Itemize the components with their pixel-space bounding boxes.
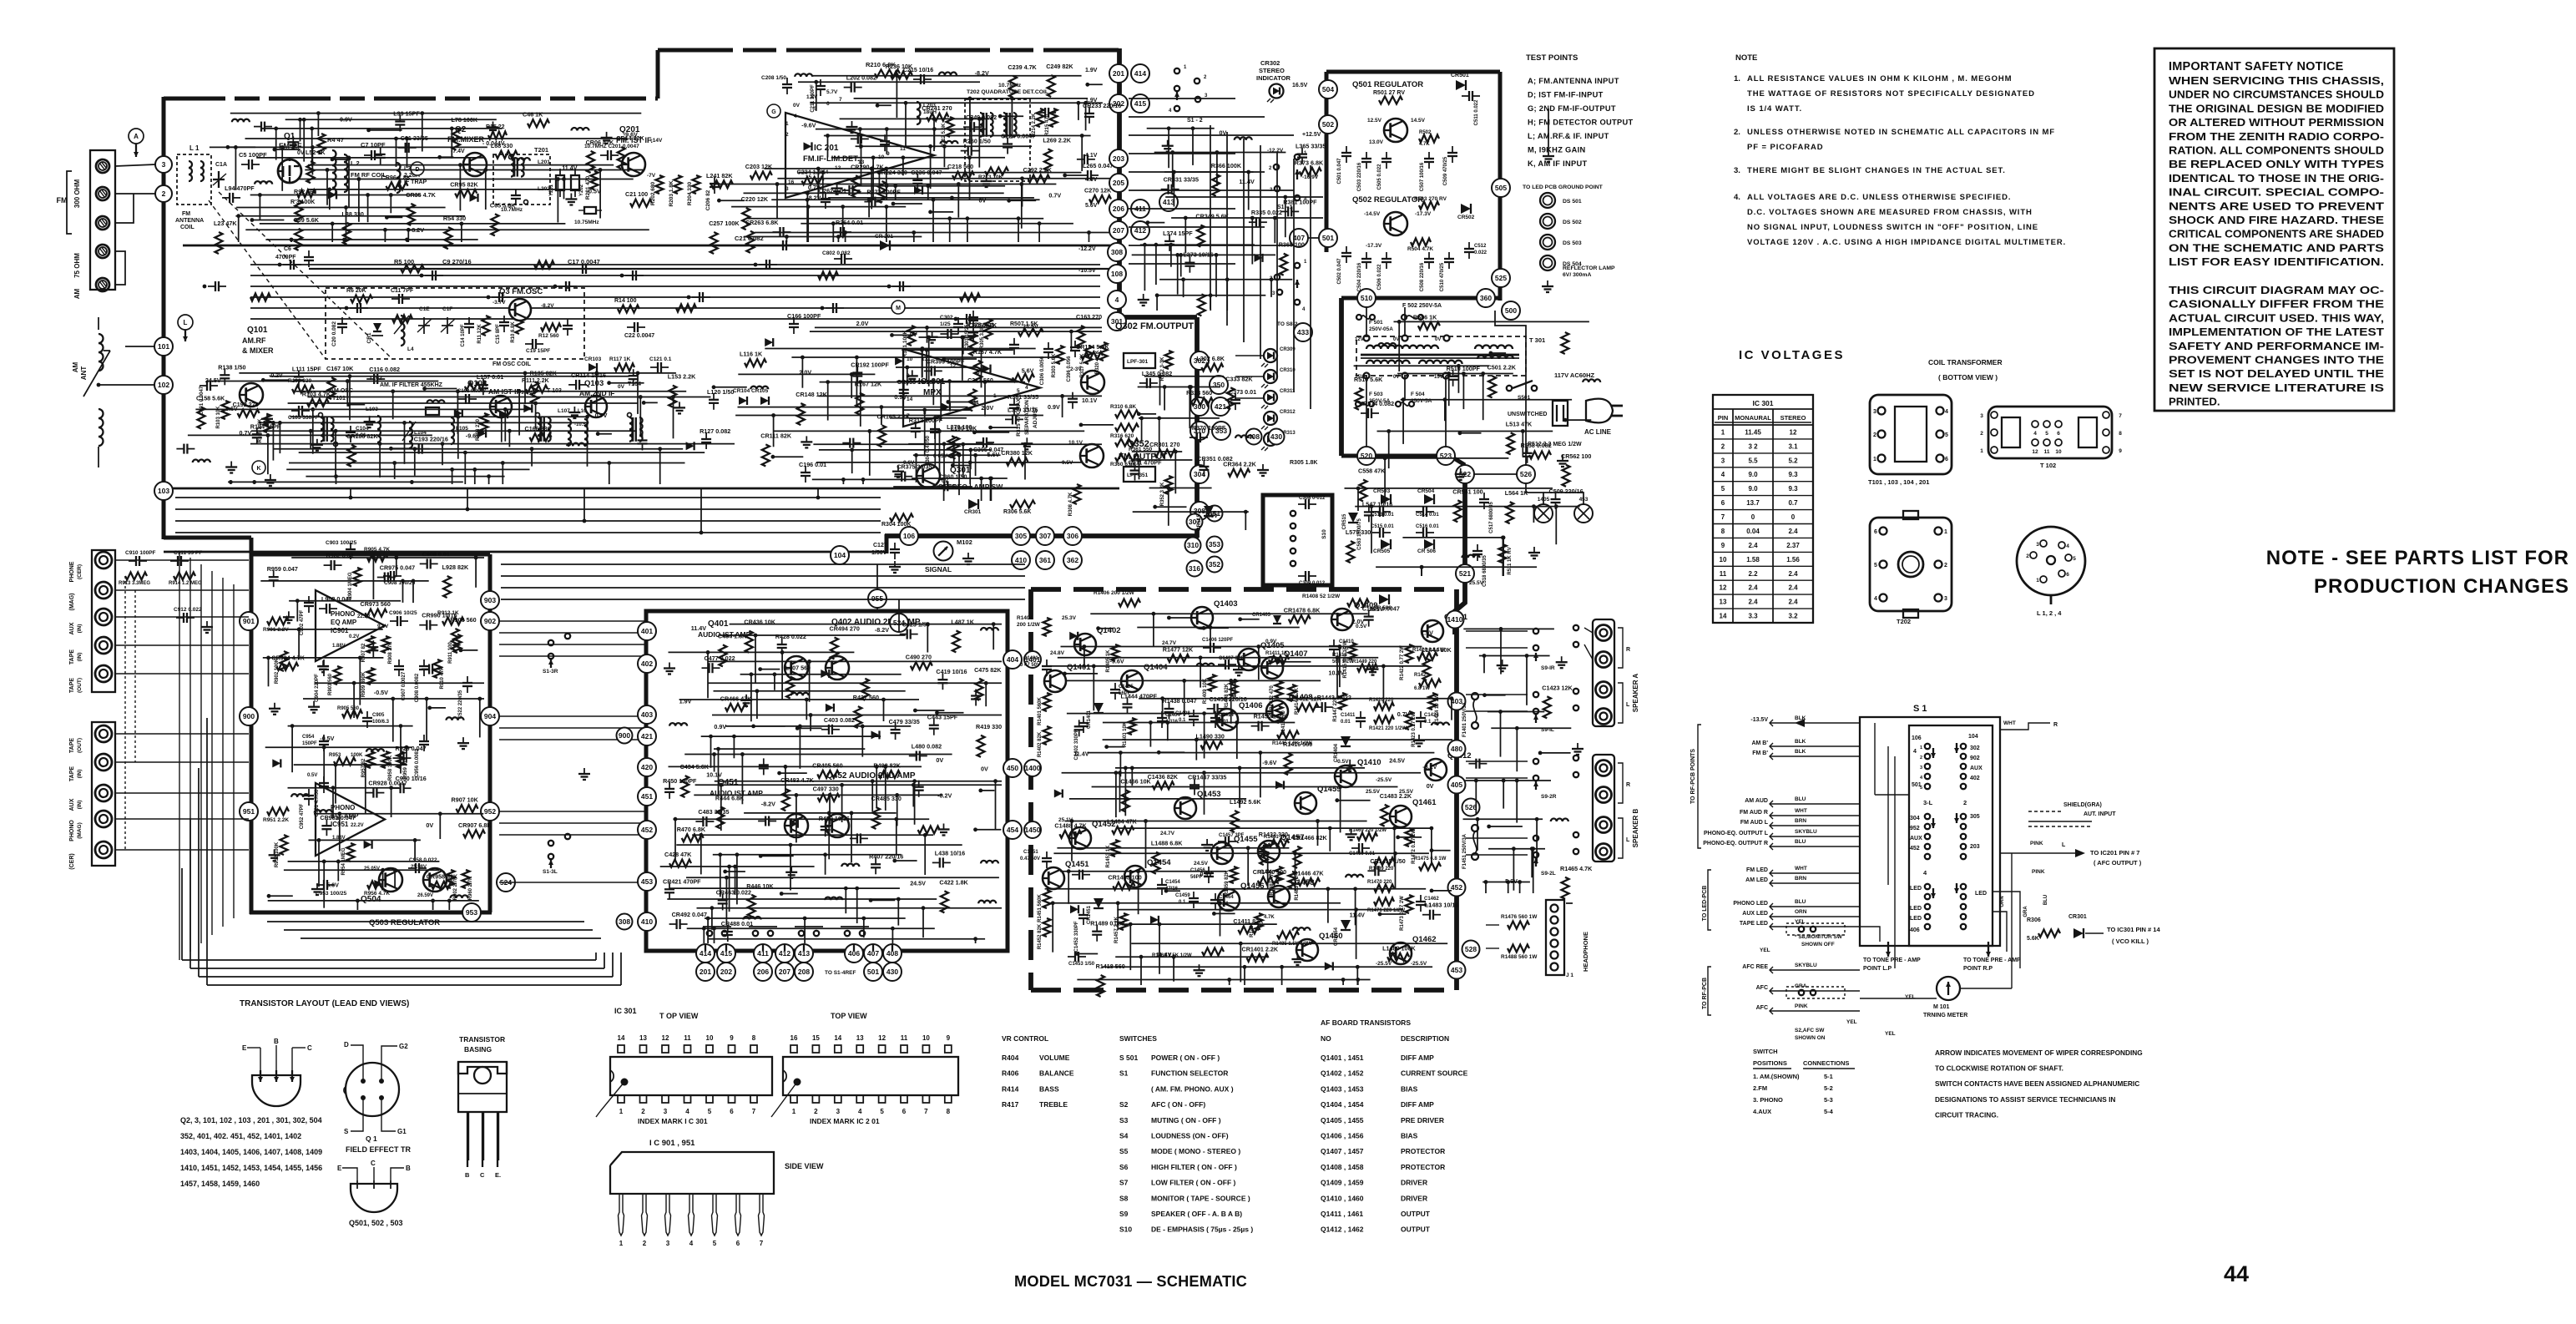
svg-text:L374 15PF: L374 15PF	[1163, 230, 1193, 237]
transistor Q1401	[1044, 670, 1066, 692]
svg-text:2.4: 2.4	[1748, 542, 1758, 549]
wire	[962, 444, 964, 478]
junction	[989, 477, 993, 481]
svg-text:C15 8PF: C15 8PF	[496, 324, 501, 344]
junction	[894, 817, 898, 821]
svg-text:0.9V: 0.9V	[1048, 403, 1060, 411]
ground	[274, 849, 275, 855]
capacitor C19 15PF	[525, 343, 533, 345]
wire	[817, 169, 819, 199]
wire MPX right bus	[1195, 317, 1200, 538]
wire	[933, 129, 935, 149]
wire	[359, 658, 361, 705]
svg-text:9: 9	[1721, 542, 1725, 549]
diode CR1 varactor	[373, 323, 381, 331]
junction	[716, 747, 720, 751]
svg-text:5: 5	[713, 1240, 717, 1247]
wire	[275, 149, 301, 150]
capacitor C512 0.022	[1468, 242, 1470, 249]
junction	[840, 783, 844, 787]
svg-text:C1408: C1408	[1175, 711, 1190, 716]
resistor R117 1K	[614, 364, 634, 371]
wire	[856, 888, 858, 923]
svg-text:AUX: AUX	[1910, 836, 1922, 841]
wire	[952, 465, 970, 467]
capacitor C208 1/50	[786, 78, 788, 84]
svg-text:SHOWN OFF: SHOWN OFF	[1801, 942, 1835, 948]
svg-text:208: 208	[798, 968, 810, 976]
wire	[644, 402, 658, 403]
svg-text:CURRENT SOURCE: CURRENT SOURCE	[1401, 1069, 1468, 1078]
junction	[858, 380, 862, 384]
svg-text:THE ORIGINAL DESIGN BE MODIFIE: THE ORIGINAL DESIGN BE MODIFIED	[2169, 102, 2384, 114]
svg-text:0V: 0V	[1393, 375, 1399, 380]
wire gang dashed 2	[219, 192, 392, 359]
svg-text:S2: S2	[1119, 1100, 1129, 1109]
junction	[422, 387, 427, 391]
wire	[557, 179, 558, 223]
svg-text:6: 6	[2057, 431, 2060, 437]
svg-text:G: G	[771, 109, 776, 115]
wire audio board box	[646, 611, 1008, 951]
svg-text:SPEAKER A: SPEAKER A	[1632, 674, 1639, 713]
resistor R914 1.2 MEG	[174, 573, 195, 580]
wire	[720, 855, 721, 897]
svg-text:DESIGNATIONS TO ASSIST SERV: DESIGNATIONS TO ASSIST SERVICE TECHNICIA…	[1935, 1095, 2115, 1104]
svg-text:0V: 0V	[910, 331, 917, 338]
resistor R901 2.2K	[267, 618, 289, 625]
junction	[983, 380, 987, 384]
svg-text:2: 2	[785, 132, 789, 138]
svg-text:NOTE: NOTE	[1735, 53, 1757, 63]
svg-text:11.4V: 11.4V	[562, 164, 578, 171]
junction	[425, 697, 429, 701]
svg-text:Q1404: Q1404	[1144, 663, 1168, 672]
resistor R446	[748, 895, 755, 917]
diode CR503	[1381, 494, 1391, 504]
junction	[391, 697, 395, 701]
wire	[1000, 115, 1023, 117]
svg-text:R381 100PF: R381 100PF	[1283, 198, 1317, 205]
resistor R910 47K	[434, 659, 442, 678]
svg-text:-8.2V: -8.2V	[761, 801, 775, 808]
junction	[712, 385, 716, 389]
wire	[695, 784, 1002, 786]
op-amp IC951 phono EQ	[316, 783, 385, 856]
switch S10 contact 2	[1291, 523, 1296, 528]
svg-text:C1458 220/16: C1458 220/16	[1210, 695, 1247, 703]
svg-text:1: 1	[2036, 578, 2039, 584]
resistor R903 560	[334, 666, 341, 685]
svg-text:CR436 10K: CR436 10K	[744, 619, 775, 626]
svg-text:H; FM DETECTOR OUTPUT: H; FM DETECTOR OUTPUT	[1528, 119, 1633, 127]
svg-text:Q502 REGULATOR: Q502 REGULATOR	[1352, 195, 1423, 205]
wire	[773, 416, 775, 447]
wire IF top bus	[658, 48, 1119, 53]
svg-text:DESCRIPTION: DESCRIPTION	[1401, 1034, 1449, 1043]
svg-text:R907 10K: R907 10K	[452, 796, 479, 804]
coil L477	[825, 897, 831, 901]
svg-text:C121 0.1: C121 0.1	[649, 356, 672, 362]
resistor R4 47 vertical	[318, 134, 326, 154]
wire	[348, 158, 350, 208]
wire	[407, 240, 408, 242]
svg-text:TOP VIEW: TOP VIEW	[831, 1012, 867, 1020]
svg-text:450: 450	[1007, 764, 1018, 772]
wire terminal to node2	[115, 193, 155, 195]
svg-text:POWER ( ON - OFF ): POWER ( ON - OFF )	[1151, 1054, 1220, 1062]
node 407	[1290, 229, 1308, 247]
node 307 b	[1187, 514, 1203, 530]
svg-text:TRANSISTOR: TRANSISTOR	[459, 1035, 505, 1044]
junction	[399, 724, 403, 728]
svg-text:TO LED PCB GROUND POINT: TO LED PCB GROUND POINT	[1523, 184, 1604, 190]
svg-text:R167 12K: R167 12K	[855, 381, 882, 388]
wire	[902, 349, 1013, 351]
svg-text:R437 560: R437 560	[853, 694, 879, 701]
wire bottom loop r1	[604, 953, 605, 968]
svg-text:TO LED-PCB: TO LED-PCB	[1702, 886, 1708, 922]
svg-text:414: 414	[1134, 69, 1146, 78]
capacitor C1402 330PF	[1083, 716, 1084, 723]
wire node link	[891, 963, 893, 963]
resistor CR343	[1013, 374, 1034, 382]
junction	[302, 118, 306, 122]
junction	[859, 144, 863, 149]
svg-text:-8.2V: -8.2V	[410, 226, 424, 234]
wire	[692, 834, 933, 836]
wire	[432, 901, 434, 910]
wire	[856, 145, 1032, 147]
svg-text:CR492 0.047: CR492 0.047	[672, 911, 707, 918]
wire phono box right	[488, 554, 492, 912]
svg-text:4: 4	[1721, 471, 1725, 478]
wire terminal link	[115, 194, 134, 223]
resistor L153	[669, 386, 676, 407]
svg-text:2: 2	[1963, 799, 1967, 806]
resistor R954 1MEG	[347, 843, 355, 862]
capacitor C514 0.01	[1416, 511, 1423, 513]
resistor CR241	[927, 114, 948, 121]
svg-text:TAPE: TAPE	[69, 766, 75, 781]
svg-text:C1E: C1E	[419, 306, 430, 312]
junction	[780, 650, 785, 654]
svg-text:AM: AM	[73, 288, 81, 299]
wire	[289, 462, 685, 464]
node 525	[1492, 269, 1510, 287]
svg-text:COIL: COIL	[180, 225, 194, 230]
svg-text:24.5V: 24.5V	[1194, 861, 1209, 867]
svg-text:LED: LED	[1910, 906, 1922, 912]
svg-text:PF = PICOFARAD: PF = PICOFARAD	[1747, 143, 1824, 152]
capacitor C308 0-012	[1298, 503, 1306, 505]
svg-text:452: 452	[1910, 846, 1920, 852]
svg-text:R1473 0.27 2W: R1473 0.27 2W	[1400, 896, 1405, 931]
junction	[267, 894, 271, 898]
svg-text:C516 0.01: C516 0.01	[1416, 524, 1439, 529]
wire	[831, 157, 1005, 159]
diode CR515	[1348, 513, 1358, 523]
node 524 b	[497, 873, 515, 892]
wire	[886, 129, 887, 154]
wire	[816, 462, 1088, 463]
junction	[258, 193, 262, 197]
svg-text:C503 220/16: C503 220/16	[1357, 162, 1362, 191]
wire	[886, 186, 887, 200]
svg-text:404: 404	[1007, 655, 1018, 664]
svg-text:CR973 560: CR973 560	[361, 600, 391, 608]
resistor R1445 1.8K 1/2W	[1277, 731, 1299, 739]
svg-text:CR1485 100: CR1485 100	[1108, 873, 1141, 881]
wire	[943, 487, 945, 501]
svg-text:L345 0.082: L345 0.082	[1142, 370, 1172, 377]
ground	[274, 703, 275, 709]
svg-text:4: 4	[1025, 385, 1028, 391]
svg-text:M, I9KHZ GAIN: M, I9KHZ GAIN	[1528, 146, 1586, 154]
svg-text:C249 0.082: C249 0.082	[966, 114, 997, 121]
svg-text:R906 560: R906 560	[450, 616, 476, 624]
wire	[714, 748, 865, 750]
junction	[266, 656, 270, 660]
junction	[803, 917, 807, 921]
wire	[720, 785, 722, 831]
svg-text:CR515: CR515	[1342, 513, 1347, 529]
resistor C99	[295, 229, 302, 250]
wire	[927, 624, 928, 653]
svg-text:900: 900	[619, 731, 630, 740]
svg-text:-8.2V: -8.2V	[1422, 763, 1437, 771]
svg-text:G2: G2	[399, 1043, 408, 1050]
svg-text:R1443 0.022: R1443 0.022	[1317, 694, 1351, 701]
resistor R301 100K	[908, 326, 916, 346]
junction	[392, 461, 397, 465]
coil CR456	[978, 901, 984, 903]
svg-text:R951 2.2K: R951 2.2K	[263, 817, 289, 823]
svg-text:-25.5V: -25.5V	[1376, 777, 1392, 783]
svg-text:(IN): (IN)	[77, 801, 83, 810]
wire	[939, 431, 941, 471]
capacitor CR276	[842, 190, 850, 191]
transistor Q1 FM RF FET	[278, 159, 301, 183]
svg-text:R: R	[1626, 647, 1630, 653]
wire	[236, 207, 445, 209]
diode L409	[821, 670, 829, 678]
node 454	[1003, 821, 1022, 839]
ground psu2	[1533, 547, 1535, 553]
resistor R906	[452, 629, 459, 650]
svg-text:R905 560: R905 560	[337, 706, 360, 711]
junction	[844, 887, 848, 891]
wire	[707, 652, 709, 698]
resistor L23	[215, 232, 223, 254]
svg-text:L302 6.8K: L302 6.8K	[1196, 355, 1225, 362]
junction	[735, 852, 740, 857]
junction	[523, 371, 528, 376]
svg-text:C158 5.6K: C158 5.6K	[196, 395, 225, 402]
svg-text:0.01: 0.01	[1219, 902, 1229, 907]
svg-text:0.7V: 0.7V	[1048, 191, 1061, 199]
svg-text:PINK: PINK	[1795, 1003, 1808, 1009]
svg-text:C1414: C1414	[1219, 713, 1234, 718]
ground	[790, 867, 792, 872]
svg-text:5.6V: 5.6V	[326, 881, 339, 888]
junction	[405, 137, 409, 141]
wire node link	[762, 963, 764, 963]
svg-text:C501 2.2K: C501 2.2K	[1488, 363, 1517, 371]
ground C127	[894, 561, 896, 567]
capacitor CR488	[727, 925, 729, 932]
wire psu diag	[1495, 311, 1526, 465]
svg-text:L23 47K: L23 47K	[214, 220, 237, 227]
node 3	[155, 156, 172, 173]
svg-text:9: 9	[2119, 448, 2122, 454]
wire 101 run	[125, 346, 154, 347]
wire	[840, 118, 990, 119]
junction	[702, 927, 706, 931]
capacitor C11 7PF	[391, 298, 399, 300]
capacitor CR256	[1077, 159, 1084, 160]
capacitor C953 100/25	[316, 884, 324, 886]
wire	[474, 469, 476, 484]
junction	[706, 650, 710, 654]
node 310 b	[1185, 538, 1201, 553]
svg-text:C952 47PF: C952 47PF	[300, 803, 305, 829]
svg-text:10: 10	[706, 1034, 714, 1042]
resistor C292	[1028, 175, 1050, 183]
ground	[669, 663, 670, 669]
wire	[349, 404, 365, 406]
wire	[744, 192, 1004, 194]
wire bus run 0	[250, 264, 1100, 265]
wire psu v1	[1366, 307, 1367, 336]
crystal X203	[584, 207, 596, 214]
svg-text:C906 10/25: C906 10/25	[389, 610, 417, 616]
svg-text:M102: M102	[957, 538, 972, 546]
wire bottom loop r3	[620, 953, 622, 985]
junction	[968, 461, 972, 465]
wire	[268, 658, 270, 686]
wire node stub	[725, 944, 727, 951]
wire	[711, 908, 713, 930]
svg-text:R459 10/16: R459 10/16	[819, 815, 850, 822]
node 308	[1108, 243, 1126, 261]
junction	[937, 429, 942, 433]
diode CR502	[1461, 204, 1471, 214]
svg-text:Q1403 , 1453: Q1403 , 1453	[1321, 1084, 1364, 1093]
capacitor C215 10/16	[913, 78, 921, 80]
svg-text:C6: C6	[284, 246, 291, 252]
node 413	[1159, 193, 1178, 211]
svg-text:MONITOR ( TAPE - SOURCE ): MONITOR ( TAPE - SOURCE )	[1151, 1194, 1250, 1202]
capacitor C1411 0.01	[1360, 711, 1361, 718]
wire	[267, 629, 382, 630]
svg-text:R303 5.6K: R303 5.6K	[1052, 353, 1057, 377]
svg-text:T OP VIEW: T OP VIEW	[659, 1012, 699, 1020]
svg-text:YEL: YEL	[1760, 948, 1770, 953]
svg-text:11: 11	[1720, 570, 1727, 578]
svg-text:R404: R404	[1002, 1054, 1019, 1062]
svg-text:11.45: 11.45	[1745, 429, 1761, 437]
svg-text:C1451: C1451	[1023, 850, 1038, 855]
transistor Q451	[785, 814, 808, 837]
svg-text:6: 6	[826, 101, 830, 107]
svg-text:UNSWITCHED: UNSWITCHED	[1508, 412, 1547, 417]
svg-text:Q1402 , 1452: Q1402 , 1452	[1321, 1069, 1364, 1078]
svg-text:CRITICAL COMPONENTS ARE SHADED: CRITICAL COMPONENTS ARE SHADED	[2169, 228, 2384, 240]
wire power amp box bottom	[1031, 988, 1457, 993]
svg-text:CONNECTIONS: CONNECTIONS	[1803, 1059, 1849, 1067]
wire bottom loop l3	[206, 718, 208, 985]
svg-text:CR165 2.2K: CR165 2.2K	[877, 412, 911, 420]
junction	[1080, 134, 1084, 138]
junction	[921, 346, 925, 351]
capacitor C503 220/16	[1366, 152, 1367, 159]
svg-text:406: 406	[1910, 927, 1920, 933]
resistor C218	[952, 172, 974, 179]
svg-text:PINK: PINK	[2030, 841, 2043, 846]
svg-text:L153 2.2K: L153 2.2K	[668, 373, 696, 381]
wire	[195, 408, 532, 410]
svg-text:0V: 0V	[426, 821, 433, 829]
svg-text:( VCO KILL ): ( VCO KILL )	[2112, 937, 2149, 945]
svg-text:R213 10K: R213 10K	[978, 174, 1003, 180]
svg-text:480: 480	[1451, 745, 1462, 753]
wire	[750, 675, 752, 722]
junction	[309, 429, 313, 433]
svg-text:6.8 1W: 6.8 1W	[1414, 686, 1430, 691]
ground M102	[967, 553, 969, 558]
diode CR107	[454, 409, 462, 417]
capacitor C20 0.082	[341, 317, 343, 324]
svg-text:C1423 12K: C1423 12K	[1542, 684, 1573, 691]
svg-text:0.9V: 0.9V	[1200, 871, 1213, 878]
svg-text:5-4: 5-4	[1824, 1108, 1834, 1115]
svg-text:308: 308	[1111, 248, 1123, 256]
svg-text:S6: S6	[1119, 1163, 1129, 1171]
capacitor CR406	[850, 837, 857, 839]
svg-text:PIN: PIN	[1718, 414, 1729, 422]
svg-text:2.0V: 2.0V	[1352, 618, 1365, 625]
resistor L241	[711, 180, 733, 188]
junction	[885, 184, 889, 188]
svg-text:528: 528	[1465, 945, 1477, 953]
svg-text:207: 207	[1113, 226, 1124, 235]
capacitor C494	[763, 758, 765, 765]
coil AM loop antenna lower	[98, 409, 104, 418]
capacitor C479	[895, 723, 897, 730]
junction	[393, 868, 397, 872]
transistor Q1461	[1390, 806, 1412, 827]
svg-text:453: 453	[641, 877, 653, 886]
node 316	[1187, 561, 1203, 577]
svg-text:PRE DRIVER: PRE DRIVER	[1401, 1116, 1444, 1124]
capacitor C952 47PF	[308, 789, 310, 796]
svg-text:C930 10/16: C930 10/16	[396, 775, 427, 782]
junction	[1085, 83, 1089, 87]
wire	[958, 455, 960, 495]
wire	[872, 158, 874, 200]
capacitor R175	[972, 326, 974, 332]
node 510	[1357, 289, 1376, 307]
svg-text:R54 330: R54 330	[443, 215, 466, 222]
wire bottom bus drop	[885, 534, 889, 553]
resistor R317 5-3K	[1085, 346, 1093, 364]
wire node stub	[853, 944, 855, 951]
resistor C475	[976, 679, 983, 700]
svg-text:12.5V: 12.5V	[1367, 118, 1382, 124]
diode R151	[942, 403, 950, 412]
wire	[637, 373, 639, 414]
